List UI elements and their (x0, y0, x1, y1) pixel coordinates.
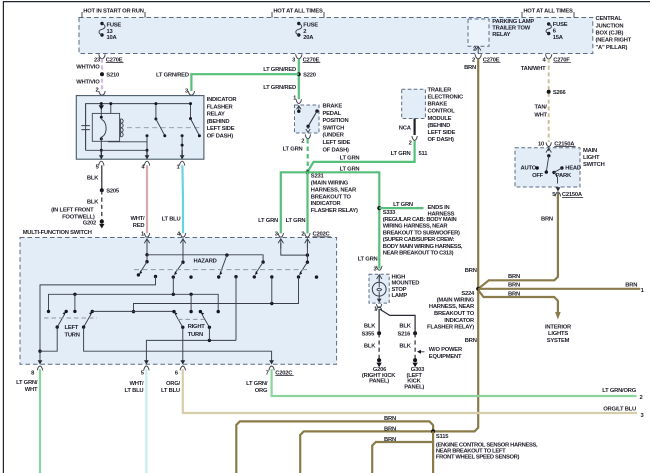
svg-text:RIGHT: RIGHT (188, 324, 206, 330)
svg-text:RED: RED (133, 223, 145, 229)
ground G202 (83, 219, 105, 228)
flasher right switch (181, 102, 201, 159)
svg-text:BLK: BLK (87, 200, 99, 206)
MFS H5 feed rail (49, 277, 219, 312)
svg-text:STOP: STOP (392, 287, 407, 293)
svg-text:(NEAR RIGHT: (NEAR RIGHT (596, 38, 632, 44)
indicator flasher relay box (76, 96, 237, 160)
svg-text:FOOTWELL): FOOTWELL) (62, 214, 95, 220)
svg-text:CONTROL: CONTROL (428, 109, 456, 115)
connector C2150A pin 10 (538, 141, 576, 147)
splice S205 (100, 188, 120, 194)
svg-text:2: 2 (303, 29, 306, 35)
svg-text:BLK: BLK (87, 176, 99, 182)
LEFT TURN label (65, 325, 80, 339)
svg-text:BOX (CJB): BOX (CJB) (596, 31, 624, 37)
main light switch box (515, 148, 605, 187)
splice S224 (427, 287, 480, 331)
ground G206 (362, 358, 396, 385)
brake switch contacts and lever (297, 109, 319, 132)
MFS pin 1 entry (top) (141, 232, 150, 249)
flasher pin 5 exit (96, 150, 104, 171)
svg-text:LEFT: LEFT (65, 325, 79, 331)
svg-text:LT BLU: LT BLU (162, 216, 181, 222)
svg-text:LT GRN: LT GRN (391, 151, 411, 157)
wire label LT GRN to stop lamp (358, 256, 382, 272)
MFS H8 rail (132, 277, 299, 313)
svg-text:FUSE: FUSE (553, 22, 568, 28)
svg-text:FUSE: FUSE (107, 22, 122, 28)
svg-text:LT GRN/ORG: LT GRN/ORG (602, 388, 636, 394)
wire LT GRN trailer module to S231 (308, 141, 415, 172)
svg-text:LT GRN/: LT GRN/ (246, 381, 268, 387)
svg-text:20A: 20A (303, 35, 314, 41)
svg-text:TAN/WHT: TAN/WHT (521, 66, 546, 72)
svg-text:OF DASH): OF DASH) (207, 134, 234, 140)
svg-text:(REGULAR CAB: BODY MAIN: (REGULAR CAB: BODY MAIN (383, 217, 457, 223)
svg-text:LT GRN: LT GRN (393, 202, 413, 208)
MFS hazard mid lever on H1 (217, 253, 229, 278)
stop lamp pin 1 inline connector (374, 304, 382, 312)
svg-text:MOUNTED: MOUNTED (392, 281, 420, 287)
MFS pin 2 lever (297, 243, 309, 279)
svg-text:LT GRN/RED: LT GRN/RED (156, 73, 189, 79)
multi-function switch box (20, 230, 337, 364)
splice S115 (431, 429, 538, 473)
svg-text:HOT AT ALL TIMES: HOT AT ALL TIMES (523, 9, 573, 15)
svg-text:NEAR BREAKOUT TO LEFT: NEAR BREAKOUT TO LEFT (436, 449, 506, 455)
svg-text:WHT/: WHT/ (129, 381, 144, 387)
wire LT GRN S231 left to MFS pin 3 (258, 172, 307, 233)
wire WHT/LT BLU MFS pin 5 down (125, 369, 147, 473)
connector C270F pin 4 (fuse 6) (521, 54, 571, 72)
wire LT BLU flasher pin1 to MFS pin4 (162, 165, 183, 233)
connector C270E pin 2 (relay) (464, 54, 500, 71)
INTERIOR LIGHTS SYSTEM text (545, 324, 572, 344)
svg-text:10: 10 (538, 141, 544, 147)
svg-text:BRN: BRN (508, 283, 520, 289)
svg-text:WHT/VIO: WHT/VIO (76, 80, 100, 86)
svg-text:G202: G202 (83, 221, 96, 227)
MFS wire C2b down to pin5 rail (235, 277, 237, 341)
svg-text:JUNCTION: JUNCTION (596, 23, 624, 29)
svg-text:FLASHER RELAY): FLASHER RELAY) (311, 208, 358, 214)
svg-text:S333: S333 (383, 210, 396, 216)
svg-text:LIGHT: LIGHT (583, 155, 600, 161)
svg-text:MAIN: MAIN (583, 148, 597, 154)
svg-text:HARNESS, NEAR: HARNESS, NEAR (429, 304, 475, 310)
bottom BRN bus line 3 (372, 437, 433, 473)
central junction box (CJB) outline (79, 18, 593, 54)
wire LT GRN S231 down to MFS pin 2 (286, 172, 308, 233)
wire LT GRN/ORG MFS pin 7 to right edge (246, 369, 642, 401)
svg-text:10A: 10A (107, 35, 118, 41)
MFS pin 8 exit (bottom) (31, 360, 43, 376)
MFS pin 3 entry (top) (275, 232, 284, 249)
wire ORG/LT BLU MFS pin 6 to right edge (161, 369, 644, 419)
ground G303 (404, 358, 425, 391)
svg-text:WHT: WHT (534, 112, 547, 118)
svg-text:2: 2 (95, 87, 98, 93)
svg-text:BRN: BRN (465, 338, 477, 344)
svg-text:RELAY: RELAY (207, 112, 225, 118)
svg-text:POSITION: POSITION (323, 118, 349, 124)
parking lamp trailer tow relay box (468, 19, 534, 46)
svg-text:WIRING HARNESS, NEAR: WIRING HARNESS, NEAR (383, 224, 449, 230)
MFS hazard lever c (253, 262, 264, 278)
svg-text:511: 511 (419, 151, 429, 157)
svg-text:SWITCH: SWITCH (323, 125, 345, 131)
svg-text:HAZARD: HAZARD (194, 258, 217, 264)
svg-text:S224: S224 (461, 291, 475, 297)
svg-text:HOT AT ALL TIMES: HOT AT ALL TIMES (273, 9, 323, 15)
wire BLK flasher pin5 to S205 (87, 165, 102, 190)
svg-text:LT GRN: LT GRN (283, 147, 303, 153)
svg-text:LT BLU: LT BLU (161, 388, 180, 394)
svg-text:LEFT SIDE: LEFT SIDE (207, 126, 235, 132)
flasher internal top rail (86, 104, 191, 151)
svg-text:HOT IN START OR RUN: HOT IN START OR RUN (83, 9, 143, 15)
splice S220 (297, 72, 316, 78)
trailer module pin 2 connector 511 (391, 136, 429, 157)
svg-text:WHT/VIO: WHT/VIO (76, 65, 100, 71)
svg-text:OFF: OFF (532, 173, 544, 179)
svg-text:BRN: BRN (625, 283, 637, 289)
svg-text:PARKING LAMP: PARKING LAMP (492, 19, 534, 25)
svg-text:BRN: BRN (384, 416, 396, 422)
svg-text:LT GRN/RED: LT GRN/RED (263, 67, 296, 73)
svg-text:BREAKOUT TO SUBWOOFER): BREAKOUT TO SUBWOOFER) (383, 231, 460, 237)
bottom BRN bus line 2 (300, 426, 433, 473)
svg-text:ELECTRONIC: ELECTRONIC (428, 95, 465, 101)
svg-text:TURN: TURN (65, 333, 80, 339)
svg-text:S220: S220 (303, 72, 316, 78)
svg-text:BRAKE: BRAKE (323, 104, 343, 110)
MFS hazard linkage dashed (134, 269, 307, 271)
MFS right turn contacts (172, 310, 220, 313)
svg-text:S115: S115 (436, 434, 449, 440)
wire LT GRN brake switch to S231 (dashed) (283, 139, 308, 171)
svg-text:AUTO: AUTO (521, 166, 537, 172)
splice S216 (398, 331, 418, 359)
svg-text:INTERIOR: INTERIOR (545, 324, 572, 330)
svg-text:2: 2 (301, 139, 304, 145)
svg-text:INDICATOR: INDICATOR (311, 201, 342, 207)
wire BRN main vertical from CJB to S115 (433, 59, 478, 432)
svg-text:BLK: BLK (364, 323, 376, 329)
splice S266 (534, 90, 566, 119)
MFS hazard floating contacts (189, 275, 318, 279)
svg-text:SWITCH: SWITCH (583, 162, 605, 168)
svg-text:PEDAL: PEDAL (323, 111, 342, 117)
svg-text:HIGH: HIGH (392, 275, 406, 281)
svg-text:PANEL): PANEL) (404, 385, 424, 391)
svg-text:(BEHIND: (BEHIND (428, 123, 451, 129)
svg-text:HARNESS, NEAR: HARNESS, NEAR (311, 187, 357, 193)
svg-text:LT GRN: LT GRN (340, 166, 360, 172)
RIGHT TURN label (188, 324, 206, 338)
svg-text:13: 13 (107, 29, 114, 35)
svg-text:LT GRN: LT GRN (358, 256, 378, 262)
svg-text:W/O POWER: W/O POWER (429, 347, 463, 353)
svg-text:BRN: BRN (384, 426, 396, 432)
svg-text:(IN LEFT FRONT: (IN LEFT FRONT (51, 208, 94, 214)
flasher pin 3 entry (185, 89, 195, 103)
svg-text:FUSE: FUSE (303, 22, 318, 28)
wire WHT/RED flasher pin4 to MFS pin1 (130, 165, 147, 233)
svg-text:(MAIN WIRING: (MAIN WIRING (437, 297, 475, 303)
svg-text:(UNDER: (UNDER (323, 133, 345, 139)
svg-text:ORG/LT BLU: ORG/LT BLU (603, 407, 636, 413)
wire BRN S224 to interior lights arrow (478, 290, 560, 320)
svg-text:2: 2 (301, 232, 304, 238)
svg-text:FRONT WHEEL SPEED SENSOR): FRONT WHEEL SPEED SENSOR) (436, 455, 520, 461)
relay pin 2 exit arrow (473, 46, 481, 53)
svg-text:"A" PILLAR): "A" PILLAR) (596, 45, 628, 51)
svg-text:S266: S266 (553, 90, 567, 96)
svg-text:PANEL): PANEL) (369, 379, 389, 385)
MFS pin 6 wire from P3 (182, 327, 184, 360)
svg-text:BREAKOUT TO: BREAKOUT TO (311, 194, 352, 200)
svg-text:ORG/: ORG/ (166, 381, 181, 387)
fuse 2 20A (296, 22, 318, 41)
svg-text:RELAY: RELAY (492, 32, 510, 38)
svg-text:BLK: BLK (399, 323, 411, 329)
brake pedal position switch (295, 104, 351, 154)
svg-text:ORG: ORG (255, 388, 268, 394)
MFS pin 4 entry (top) (177, 232, 186, 249)
MFS wire C2 to H3 to pin 8 (38, 277, 155, 361)
wire LT GRN/RED fuse2 down to S220 and brake switch (263, 59, 299, 99)
svg-text:LEFT SIDE: LEFT SIDE (323, 140, 351, 146)
flasher internal verticals (109, 102, 112, 113)
MFS right turn linkage dashed (178, 318, 205, 320)
svg-text:BRN: BRN (465, 268, 477, 274)
MFS pin 4 lever (172, 243, 185, 279)
svg-text:BRN: BRN (464, 65, 476, 71)
MFS right turn levers (174, 312, 211, 329)
svg-text:BRN: BRN (384, 437, 396, 443)
MFS left turn levers (56, 312, 93, 329)
splice S210 (76, 72, 119, 85)
svg-text:(BEHIND: (BEHIND (207, 119, 230, 125)
svg-text:LEFT SIDE: LEFT SIDE (428, 130, 456, 136)
svg-text:BLK: BLK (399, 343, 411, 349)
svg-text:CENTRAL: CENTRAL (596, 16, 623, 22)
svg-text:WHT/: WHT/ (130, 216, 145, 222)
svg-text:LAMP: LAMP (392, 293, 408, 299)
svg-text:S210: S210 (106, 73, 119, 79)
svg-text:LT GRN/RED: LT GRN/RED (263, 85, 296, 91)
bus label HOT AT ALL TIMES (fuse 6) (522, 9, 574, 18)
svg-text:LT GRN: LT GRN (286, 218, 306, 224)
svg-text:23: 23 (94, 57, 101, 63)
flasher pin2 branch with diode (99, 102, 104, 159)
S333 description text (383, 210, 463, 257)
flasher relay coil body (92, 113, 119, 141)
W/O POWER EQUIPMENT note (417, 347, 463, 360)
svg-text:(SUPER CAB/SUPER CREW:: (SUPER CAB/SUPER CREW: (383, 237, 455, 243)
svg-text:15A: 15A (553, 35, 564, 41)
splice S355 (362, 331, 382, 359)
svg-text:MODULE: MODULE (428, 116, 452, 122)
MFS pin 2 entry (top) and connector C202C (301, 232, 330, 249)
svg-text:S231: S231 (311, 174, 325, 180)
wire BLK branch to S216 (380, 309, 415, 333)
bus label HOT AT ALL TIMES (fuse 2) (272, 9, 324, 18)
svg-text:TRAILER TOW: TRAILER TOW (492, 26, 530, 32)
svg-text:HEAD: HEAD (565, 166, 581, 172)
flasher internal capacitor (81, 104, 90, 151)
wire TAN/WHT fuse6 down to light switch (548, 59, 550, 142)
flasher pin 2 entry (95, 87, 105, 102)
splice S333 and ENDS IN HARNESS stub (377, 202, 454, 218)
svg-text:LT GRN/: LT GRN/ (16, 380, 38, 386)
svg-text:2: 2 (472, 58, 475, 64)
fuse 6 15A (546, 22, 568, 41)
svg-text:NEAR BREAKOUT TO C313): NEAR BREAKOUT TO C313) (383, 251, 454, 257)
connector C270E pin 3 (fuse 2) (292, 54, 320, 63)
wire BLK stop lamp to S355 (364, 309, 379, 333)
svg-text:LT GRN: LT GRN (340, 156, 360, 162)
MFS left turn contacts (47, 310, 94, 313)
MFS pin 5 exit (bottom) (141, 360, 149, 376)
svg-text:LT BLU: LT BLU (125, 388, 144, 394)
wire LT GRN/RED S220 to flasher pin 3 (156, 73, 299, 91)
svg-text:(MAIN WIRING: (MAIN WIRING (311, 181, 349, 187)
svg-text:7: 7 (266, 370, 269, 376)
MFS pin 3 to pin 2 link (281, 243, 309, 257)
connector C2150A pin 5 (552, 187, 583, 198)
MFS left turn linkage dashed (44, 317, 97, 319)
svg-text:LT GRN: LT GRN (258, 218, 278, 224)
svg-text:INDICATOR: INDICATOR (207, 97, 238, 103)
svg-text:BRAKE: BRAKE (428, 102, 448, 108)
high mounted stop lamp (369, 274, 419, 303)
svg-text:NCA: NCA (399, 125, 412, 131)
svg-text:FLASHER RELAY): FLASHER RELAY) (427, 325, 474, 331)
MFS wire D to R1 (92, 310, 174, 312)
svg-text:2: 2 (640, 395, 643, 401)
svg-text:TAN/: TAN/ (534, 105, 547, 111)
svg-text:2: 2 (409, 140, 412, 146)
svg-text:BREAKOUT TO: BREAKOUT TO (434, 311, 475, 317)
flasher coil winding (121, 119, 124, 137)
svg-text:BODY MAIN WIRING HARNESS,: BODY MAIN WIRING HARNESS, (383, 244, 463, 250)
svg-text:(ENGINE CONTROL SENSOR HARNESS: (ENGINE CONTROL SENSOR HARNESS, (436, 442, 538, 448)
svg-text:S205: S205 (106, 189, 120, 195)
svg-text:EQUIPMENT: EQUIPMENT (429, 354, 462, 360)
svg-text:OF DASH): OF DASH) (428, 137, 455, 143)
svg-text:WHT: WHT (25, 387, 38, 393)
svg-text:BRN: BRN (508, 291, 520, 297)
stop lamp entry arrow and bulb (372, 275, 386, 303)
MFS left turn pivots to rails (40, 327, 272, 361)
svg-text:TRAILER: TRAILER (428, 87, 453, 93)
svg-text:BRN: BRN (508, 274, 520, 280)
MFS pin 5 rail (146, 327, 236, 360)
wire LT GRN S231 right to S333 (308, 166, 380, 268)
trailer module pin wire NCA (399, 119, 415, 136)
svg-text:PARK: PARK (556, 173, 572, 179)
svg-text:BLK: BLK (364, 343, 376, 349)
svg-text:INDICATOR: INDICATOR (444, 318, 475, 324)
flasher pin 1 exit (176, 150, 184, 171)
svg-text:OF DASH): OF DASH) (323, 147, 350, 153)
svg-text:ENDS IN: ENDS IN (428, 205, 450, 211)
MFS pin 6 exit (bottom) (175, 360, 186, 376)
MFS pin 7 exit (bottom) and C202C (266, 360, 294, 376)
trailer electronic brake control module (402, 87, 464, 143)
wire BLK S205 to G202 (dashed) (51, 190, 102, 220)
svg-text:S216: S216 (398, 332, 412, 338)
svg-text:MULTI-FUNCTION SWITCH: MULTI-FUNCTION SWITCH (23, 230, 92, 236)
connector C270E pin 23 (fuse 13) (94, 54, 124, 63)
wire BRN S224 right to reference 1 (478, 283, 644, 294)
svg-text:BRN: BRN (541, 217, 553, 223)
brake switch pin 1 entry arrow (293, 96, 301, 111)
svg-text:SYSTEM: SYSTEM (547, 338, 570, 344)
MFS hazard contact C2 (154, 275, 157, 278)
splice S231 (305, 170, 358, 214)
bus label HOT IN START OR RUN (82, 9, 145, 18)
fuse 13 10A (99, 22, 121, 41)
flasher middle switch (146, 102, 167, 159)
MFS hazard bank: pin1 wire and H1 rail (145, 243, 264, 264)
wire BRN light switch down to S224 (478, 193, 558, 289)
flasher bottom rails (86, 142, 147, 151)
wire LT GRN/WHT MFS pin 8 down (16, 369, 40, 473)
MFS hazard lever a (137, 255, 149, 277)
bottom BRN bus line 1 (236, 416, 433, 473)
svg-text:TURN: TURN (188, 332, 203, 338)
light switch internals (521, 148, 581, 183)
wire WHT/VIO fuse13 to flasher (76, 59, 102, 91)
svg-text:LIGHTS: LIGHTS (548, 331, 568, 337)
brake switch pin 2 exit connector (301, 134, 310, 144)
flasher linkage dashed line (127, 127, 201, 129)
flasher pin 4 exit (141, 150, 149, 171)
svg-text:FLASHER: FLASHER (207, 104, 234, 110)
CJB name text (596, 16, 632, 51)
svg-text:S355: S355 (362, 332, 376, 338)
